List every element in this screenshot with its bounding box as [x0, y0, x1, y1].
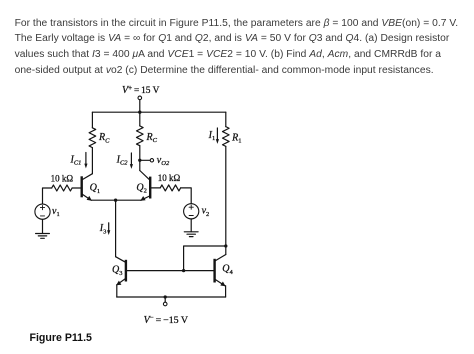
svg-text:I3: I3 [99, 223, 107, 235]
wire RC left to Q1 collector [91, 148, 93, 174]
wire v1 to ground [42, 219, 44, 233]
wire Q3 emitter down [116, 285, 118, 297]
node V- terminal [144, 297, 189, 326]
svg-text:IC2: IC2 [116, 155, 129, 167]
current arrow IC2 [116, 153, 133, 169]
node vO2 [138, 155, 170, 167]
wire tail down to Q3 [115, 200, 117, 257]
source v1 [35, 204, 60, 219]
resistor RC middle [137, 126, 158, 146]
wire top rail right to R1 [225, 112, 227, 126]
wire v2 to ground [190, 219, 192, 232]
svg-text:v1: v1 [52, 206, 60, 218]
svg-text:V+ = 15 V: V+ = 15 V [122, 84, 160, 96]
svg-text:Q4: Q4 [222, 264, 233, 276]
wire bottom rail [117, 296, 226, 298]
svg-text:V− = −15 V: V− = −15 V [144, 314, 189, 326]
wire Q4 emitter down [225, 286, 227, 297]
wire vO2 node to Q2 collector [139, 160, 141, 170]
svg-text:R1: R1 [231, 132, 241, 144]
wire top rail [92, 111, 225, 113]
svg-text:10 kΩ: 10 kΩ [158, 173, 181, 183]
svg-text:Q1: Q1 [90, 183, 100, 195]
wire base rail Q3-Q4 [127, 270, 214, 272]
transistor Q1 [82, 174, 100, 201]
wire v1 to 10k left [43, 188, 52, 204]
resistor RC left [89, 128, 110, 148]
wire 10k right to v2 [181, 188, 192, 204]
resistor R1 [223, 127, 242, 147]
current arrow I1 [208, 128, 219, 144]
wire RC middle to vO2 node [139, 146, 141, 161]
node tie junction [224, 244, 227, 247]
transistor Q4 [215, 255, 234, 287]
node junction top rail [138, 111, 141, 114]
svg-text:IC1: IC1 [70, 155, 82, 167]
node emitter junction [114, 199, 117, 202]
wire emitters rail [92, 199, 141, 201]
svg-text:Q2: Q2 [136, 182, 146, 194]
current arrow I3 [99, 223, 111, 236]
node base rail junction [182, 269, 185, 272]
wire Q2 base to 10k right [151, 187, 160, 189]
svg-text:Q3: Q3 [112, 265, 122, 277]
svg-text:v2: v2 [202, 206, 210, 218]
svg-text:10 kΩ: 10 kΩ [51, 174, 74, 184]
wire base tie to Q4 collector [184, 246, 226, 271]
wire V+ to rail [139, 100, 141, 113]
resistor 10k left [51, 174, 74, 191]
svg-text:RC: RC [98, 132, 110, 144]
svg-text:RC: RC [146, 132, 158, 144]
node bottom rail junction [164, 295, 167, 298]
source v2 [184, 204, 210, 219]
node V+ terminal [122, 84, 160, 100]
current arrow IC1 [70, 153, 88, 169]
svg-text:I1: I1 [208, 130, 216, 142]
ground (v1) [36, 234, 50, 239]
ground (v2) [184, 232, 198, 237]
resistor 10k right [158, 173, 181, 191]
wire 10k left to Q1 base [72, 187, 81, 189]
transistor Q2 [136, 171, 150, 201]
wire left RC stem [91, 112, 93, 128]
wire middle RC stem [139, 112, 141, 126]
wire R1 to Q4 collector [225, 146, 227, 254]
svg-text:vO2: vO2 [157, 155, 170, 167]
transistor Q3 [112, 257, 126, 286]
